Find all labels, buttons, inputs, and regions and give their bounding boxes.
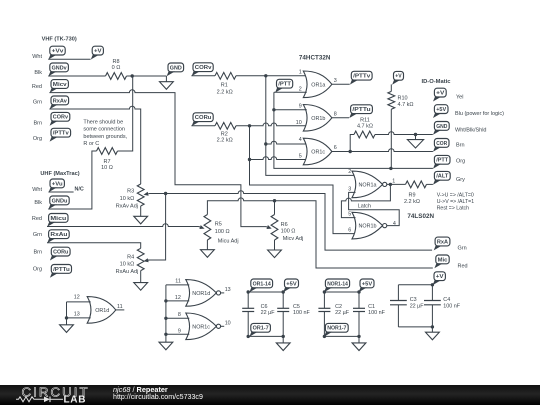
svg-text:Rest => Latch: Rest => Latch — [437, 205, 469, 211]
svg-text:C2: C2 — [335, 304, 342, 310]
value R4 10k — [120, 261, 135, 267]
flag /PTT (left) — [275, 79, 293, 92]
pin 8 — [334, 112, 337, 118]
svg-text:OR1-7: OR1-7 — [253, 326, 269, 332]
svg-text:ID-O-Matic: ID-O-Matic — [422, 79, 452, 85]
svg-text:Grn: Grn — [458, 245, 467, 251]
svg-text:NOR1-14: NOR1-14 — [327, 281, 348, 287]
svg-text:NOR1d: NOR1d — [192, 291, 210, 297]
value C5 100nF — [293, 310, 310, 316]
svg-text:100 nF: 100 nF — [443, 303, 460, 309]
ground (OR1d inputs) — [60, 318, 74, 333]
svg-text:RxAv: RxAv — [53, 98, 68, 104]
text Wht (UHF) — [32, 187, 42, 193]
potentiometer R6 — [271, 215, 278, 241]
flag +V (R10 pullup) — [392, 71, 403, 84]
text Red (UHF) — [32, 216, 42, 222]
label C4 — [443, 297, 450, 303]
svg-text:R1: R1 — [221, 83, 228, 89]
CircuitLab logo — [0, 385, 110, 405]
value C1 100nF — [368, 310, 385, 316]
svg-text:Gry: Gry — [456, 177, 465, 183]
junction C5 top — [282, 290, 285, 293]
wire OR1c output to COR — [332, 149, 433, 152]
wire RxAu to R4 top — [47, 243, 141, 249]
svg-text:NOR1c: NOR1c — [192, 324, 210, 330]
svg-text:R9: R9 — [408, 193, 415, 199]
text Yel — [456, 94, 463, 100]
svg-text:10: 10 — [225, 321, 231, 327]
ground (OR1 caps) — [276, 336, 290, 350]
label R8 — [112, 59, 119, 65]
junction R6 top — [273, 199, 276, 202]
wire NOR1a output to R9 — [387, 183, 406, 185]
svg-text:R10: R10 — [398, 95, 408, 101]
label R3 — [127, 189, 134, 195]
svg-text:C6: C6 — [261, 304, 268, 310]
text Red (VHF) — [32, 84, 42, 90]
wire NOR input tie — [165, 285, 167, 334]
svg-text:R11: R11 — [360, 117, 370, 123]
junction R8/GNDv node — [131, 74, 134, 77]
wire Micu to R5 wiper — [47, 224, 199, 227]
pin 12 NOR1d — [175, 295, 181, 301]
svg-text:Org: Org — [33, 136, 42, 142]
value R5 100 ohm — [215, 229, 230, 235]
pin 8 NOR1c — [178, 312, 181, 318]
svg-text:Micv Adj: Micv Adj — [283, 236, 303, 242]
capacitor C3 — [390, 285, 407, 327]
flag CORu (UHF) — [50, 247, 70, 260]
flag COR (ID) — [433, 139, 449, 152]
text UHF (MaxTrac) title — [40, 171, 79, 177]
wire NOR1c pin 8 — [166, 317, 189, 319]
pin 1 NOR1a — [392, 178, 395, 184]
value R7 10 ohm — [101, 165, 113, 171]
svg-text:NOR1b: NOR1b — [359, 224, 377, 230]
svg-text:3: 3 — [348, 187, 351, 193]
wire R2 to OR1b pin 10 — [236, 123, 307, 126]
text Brn (ID) — [456, 143, 465, 149]
wire R4 wiper to RxA bus — [147, 194, 166, 261]
pin 13 NOR1d — [225, 287, 231, 293]
junction NOR1a out — [389, 183, 392, 186]
label Micu Adj — [218, 238, 239, 244]
junction C1 bottom — [357, 335, 360, 338]
svg-text:NOR1a: NOR1a — [359, 183, 377, 189]
svg-text:74HCT32N: 74HCT32N — [299, 54, 331, 61]
flag +V (ID) — [433, 88, 446, 101]
pin 5 — [299, 154, 302, 160]
svg-text:Red: Red — [458, 263, 468, 269]
wire NOR1 cap top rail — [324, 291, 359, 293]
value R11 4.7k — [357, 124, 373, 130]
svg-text:RxA: RxA — [437, 239, 449, 245]
svg-text:There should be: There should be — [83, 119, 123, 125]
junction C1 top — [357, 290, 360, 293]
wire OR1d pin 12 — [67, 301, 91, 303]
wire CORu to NOR1b pin 6 — [250, 160, 356, 234]
value C4 100nF — [443, 303, 460, 309]
wire OR1b output — [332, 117, 349, 119]
svg-text:+V: +V — [395, 74, 402, 80]
svg-text:COR: COR — [436, 141, 448, 147]
svg-text:CORu: CORu — [53, 250, 69, 256]
svg-text:100 nF: 100 nF — [293, 310, 310, 316]
svg-text:100 Ω: 100 Ω — [215, 229, 230, 235]
flag +Vv (VHF) — [48, 46, 65, 59]
svg-text:13: 13 — [74, 311, 80, 317]
svg-text:GND: GND — [436, 124, 447, 130]
wire OR1 cap top rail — [248, 291, 283, 293]
flag NOR1-7 — [324, 323, 348, 336]
label R4 — [127, 255, 134, 261]
flag /PTTv (output) — [350, 71, 372, 84]
pin 1 — [299, 70, 302, 76]
svg-text:R5: R5 — [215, 222, 222, 228]
svg-text:UHF (MaxTrac): UHF (MaxTrac) — [40, 171, 79, 177]
wire OR1d output stub — [116, 309, 125, 311]
text Blk (VHF) — [34, 70, 42, 76]
svg-text:/PTTv: /PTTv — [353, 74, 371, 80]
wire NOR1 cap bottom rail — [324, 335, 359, 337]
svg-text:Org: Org — [456, 159, 465, 165]
junction C5 bottom — [282, 335, 285, 338]
svg-text:1: 1 — [299, 70, 302, 76]
value C6 22uF — [261, 310, 276, 316]
wire Micv to R6 wiper — [49, 90, 266, 227]
svg-text:22 µF: 22 µF — [261, 310, 276, 316]
svg-text:8: 8 — [178, 312, 181, 318]
resistor R8 — [106, 73, 127, 80]
wire CORu vertical — [249, 126, 251, 160]
text Org (UHF) — [33, 267, 42, 273]
wire CORv vertical — [265, 76, 267, 144]
capacitor C2 — [318, 292, 330, 336]
potentiometer R4 — [137, 248, 144, 270]
text Grn (UHF) — [33, 232, 42, 238]
svg-text:U->V => /ALT=1: U->V => /ALT=1 — [437, 199, 475, 205]
flag Mic (ID) — [434, 255, 449, 268]
ground (below R5) — [201, 240, 215, 257]
svg-text:/PTTu: /PTTu — [53, 267, 70, 273]
label C3 — [410, 297, 417, 303]
svg-text:C1: C1 — [368, 304, 375, 310]
value R1 2.2k — [217, 89, 233, 95]
junction ground tap — [414, 133, 417, 136]
wire NOR1d output stub — [221, 292, 225, 294]
ground (C3/C4) — [426, 327, 440, 340]
svg-text:22 µF: 22 µF — [335, 310, 350, 316]
wire GNDv node down to R7 — [118, 76, 133, 151]
wire NOR1d pin 11 — [166, 284, 189, 286]
wire RxAv to R3 top — [49, 106, 140, 184]
text Grn (VHF) — [33, 100, 42, 106]
wire CORv to R1 — [191, 75, 215, 77]
svg-text:13: 13 — [225, 287, 231, 293]
junction CORu to pin 5 — [248, 158, 251, 161]
svg-text:Wht: Wht — [32, 187, 42, 193]
svg-text:+5V: +5V — [436, 107, 446, 113]
potentiometer R5 — [204, 215, 211, 241]
svg-text:12: 12 — [74, 295, 80, 301]
label R2 — [221, 131, 228, 137]
wire audio rail (Mic) to pots — [207, 198, 432, 268]
wire C3/C4 bottom rail — [398, 326, 432, 328]
ground (below R6) — [268, 240, 282, 258]
svg-text:Yel: Yel — [456, 94, 463, 100]
pin 4 NOR1b — [393, 221, 396, 227]
wire NOR1c output stub — [221, 325, 225, 327]
svg-text:4: 4 — [299, 137, 302, 143]
value C3 22uF — [410, 303, 425, 309]
junction C4 top — [431, 283, 434, 286]
note ALT line1 — [437, 192, 474, 198]
op-amp OR1b gate — [303, 105, 332, 132]
svg-text:Latch: Latch — [358, 203, 371, 209]
label C5 — [293, 304, 300, 310]
text Grn (ID) — [458, 245, 467, 251]
R4 wiper arrow — [144, 258, 150, 262]
wire R10 to /PTT net — [390, 109, 392, 168]
pin 6 NOR1b — [348, 228, 351, 234]
wire R7 to GNDu — [48, 151, 96, 209]
pin 9 — [299, 104, 302, 110]
wire C3/C4 top rail — [398, 284, 432, 286]
svg-text:RxAu: RxAu — [50, 232, 68, 238]
flag RxAu — [47, 230, 69, 243]
flag /PTTu (output) — [349, 105, 372, 118]
svg-text:Wht/Blk/Shld: Wht/Blk/Shld — [455, 128, 486, 134]
ground (NOR1 caps) — [352, 336, 366, 350]
flag +Vu — [49, 179, 65, 192]
wire CORv to NOR1a pin 2 — [266, 144, 356, 175]
junction /PTT to pin 9 — [272, 108, 275, 111]
flag /PTTu (UHF) — [50, 265, 72, 278]
pin 2 — [299, 86, 302, 92]
label R11 — [360, 117, 370, 123]
pin 9 NOR1c — [178, 328, 181, 334]
pin 10 NOR1c — [225, 321, 231, 327]
svg-text:Red: Red — [32, 84, 42, 90]
resistor R1 — [215, 72, 236, 79]
flag /PTTv (VHF) — [50, 128, 71, 141]
label C1 — [368, 304, 375, 310]
svg-text:GNDu: GNDu — [52, 198, 68, 204]
junction OR1d inputs — [65, 316, 68, 319]
svg-text:6: 6 — [348, 228, 351, 234]
wire CORv to OR1c pin 4 — [266, 141, 307, 144]
svg-text:0 Ω: 0 Ω — [112, 65, 121, 71]
svg-text:Blk: Blk — [34, 200, 42, 206]
wire +Vv to +V — [48, 58, 90, 60]
svg-text:between grounds,: between grounds, — [83, 134, 127, 140]
svg-text:RxAv Adj: RxAv Adj — [116, 203, 138, 209]
pin 5 NOR1b — [348, 212, 351, 218]
text Red (ID) — [458, 263, 468, 269]
flag GND (top) — [167, 63, 184, 76]
svg-text:Grn: Grn — [33, 100, 42, 106]
pin 10 — [296, 120, 302, 126]
note line 4 — [83, 141, 99, 147]
svg-text:Blk: Blk — [34, 70, 42, 76]
flag CORv (mid) — [192, 63, 214, 76]
svg-text:6: 6 — [334, 145, 337, 151]
wire OR1a output — [332, 83, 350, 85]
svg-text:OR1-14: OR1-14 — [253, 281, 272, 287]
label RxAv Adj — [116, 203, 138, 209]
flag +5V (NOR1) — [359, 279, 374, 292]
svg-text:R or C: R or C — [83, 141, 99, 147]
value C2 22uF — [335, 310, 350, 316]
svg-text:+V: +V — [436, 91, 444, 97]
svg-text:CORv: CORv — [195, 65, 212, 71]
svg-text:10: 10 — [296, 120, 302, 126]
wire R3 wiper to RxA — [150, 191, 433, 250]
op-amp NOR1d gate — [186, 280, 221, 307]
pin 12 OR1d — [74, 295, 80, 301]
svg-text:Org: Org — [33, 267, 42, 273]
R6 wiper arrow — [266, 225, 272, 229]
text Brn (UHF) — [33, 250, 42, 256]
wire R1 to OR1a pin 1 — [236, 75, 307, 77]
flag /PTT (ID) — [433, 155, 450, 168]
flag +5V (ID) — [433, 105, 448, 118]
svg-text:C3: C3 — [410, 297, 417, 303]
text ID-O-Matic — [422, 79, 452, 85]
svg-text:5: 5 — [299, 154, 302, 160]
junction CORu node — [248, 124, 251, 127]
svg-text:R7: R7 — [103, 159, 110, 165]
wire GNDv to R8 — [48, 75, 105, 77]
svg-text:C4: C4 — [443, 297, 450, 303]
wire R6 top stub — [274, 201, 276, 215]
svg-text:Wht: Wht — [32, 54, 42, 60]
label Micv Adj — [283, 236, 303, 242]
svg-text:OR1a: OR1a — [311, 82, 325, 88]
note line 3 — [83, 134, 127, 140]
label R1 — [221, 83, 228, 89]
label R9 — [408, 193, 415, 199]
pin 11 OR1d — [117, 304, 123, 310]
R5 wiper arrow — [199, 225, 205, 229]
svg-text:Brn: Brn — [33, 120, 42, 126]
svg-text:2.2 kΩ: 2.2 kΩ — [217, 138, 233, 144]
op-amp OR1d gate — [87, 297, 116, 324]
svg-text:+5V: +5V — [362, 281, 373, 287]
flag /ALT (ID) — [433, 171, 450, 184]
junction NOR1d pin 12 — [164, 299, 167, 302]
svg-text:100 nF: 100 nF — [368, 310, 385, 316]
svg-text:R4: R4 — [127, 255, 134, 261]
capacitor C1 — [353, 292, 365, 336]
junction C2 top — [323, 290, 326, 293]
svg-text:R6: R6 — [281, 222, 288, 228]
label C2 — [335, 304, 342, 310]
text Latch — [358, 203, 371, 209]
pin 6 — [334, 145, 337, 151]
svg-text:RxAu Adj: RxAu Adj — [116, 269, 139, 275]
svg-text:/PTTv: /PTTv — [53, 131, 70, 137]
junction CORv node — [264, 74, 267, 77]
svg-text:74LS02N: 74LS02N — [407, 213, 434, 220]
flag +5V (OR1) — [283, 279, 298, 292]
flag +V (C4) — [433, 272, 446, 285]
value R9 2.2k — [404, 199, 420, 205]
wire OR1d input tie — [66, 302, 68, 318]
junction C6 top — [247, 290, 250, 293]
flag NOR1-14 — [324, 279, 350, 292]
wire /PTT to OR1b pin 9 — [274, 109, 307, 111]
text Org (ID) — [456, 159, 465, 165]
wire OR1 cap bottom rail — [248, 335, 283, 337]
junction CORv to pin 4 — [264, 142, 267, 145]
svg-text:+Vv: +Vv — [52, 49, 65, 55]
svg-text:/PTT: /PTT — [436, 158, 448, 164]
svg-text:/ALT: /ALT — [436, 174, 449, 180]
svg-text:Micu: Micu — [50, 216, 66, 222]
svg-text:R2: R2 — [221, 131, 228, 137]
flag OR1-14 — [249, 279, 272, 292]
svg-text:CORu: CORu — [195, 115, 212, 121]
value R2 2.2k — [217, 138, 233, 144]
value R8 0 ohm — [112, 65, 121, 71]
label R6 — [281, 222, 288, 228]
ground (below R4) — [134, 271, 148, 291]
resistor R11 — [354, 131, 375, 138]
text Brn (VHF) — [33, 120, 42, 126]
capacitor C4 — [424, 285, 441, 327]
svg-text:N/C: N/C — [75, 186, 84, 192]
svg-text:8: 8 — [334, 112, 337, 118]
text VHF (TK-730) title — [42, 37, 77, 43]
svg-text:LAB: LAB — [64, 394, 87, 405]
svg-text:4.7 kΩ: 4.7 kΩ — [398, 102, 414, 108]
svg-text:OR1d: OR1d — [95, 308, 109, 314]
svg-text:Grn: Grn — [33, 232, 42, 238]
svg-text:V->U => /ALT=0: V->U => /ALT=0 — [437, 192, 474, 198]
svg-text:VHF (TK-730): VHF (TK-730) — [42, 37, 77, 43]
label RxAu Adj — [116, 269, 139, 275]
flag RxA (ID) — [434, 237, 450, 250]
svg-text:C5: C5 — [293, 304, 300, 310]
svg-text:2.2 kΩ: 2.2 kΩ — [217, 89, 233, 95]
svg-text:9: 9 — [178, 328, 181, 334]
junction C2 bottom — [323, 335, 326, 338]
svg-text:Brn: Brn — [33, 250, 42, 256]
svg-text:11: 11 — [175, 279, 181, 285]
svg-text:11: 11 — [117, 304, 123, 310]
wire /PTT net to ID-O-Matic — [274, 92, 433, 168]
junction NOR1c pin 9 — [164, 333, 167, 336]
note line 2 — [83, 127, 125, 133]
note ALT line3 — [437, 205, 469, 211]
svg-text:CORv: CORv — [53, 115, 69, 121]
pin 3 NOR1a — [348, 187, 351, 193]
junction RxA bus — [164, 192, 167, 195]
op-amp OR1c gate — [303, 138, 332, 165]
flag Micu — [47, 214, 68, 227]
pin 4 — [299, 137, 302, 143]
svg-text:GNDv: GNDv — [52, 65, 68, 71]
flag GNDv — [48, 63, 68, 76]
junction C6 bottom — [247, 335, 250, 338]
junction R10 bottom — [389, 167, 392, 170]
text Blk (UHF) — [34, 200, 42, 206]
wire latch NOR1a out to NOR1b pin 5 — [341, 184, 390, 217]
potentiometer R3 — [137, 184, 144, 206]
junction C4 bottom — [431, 325, 434, 328]
